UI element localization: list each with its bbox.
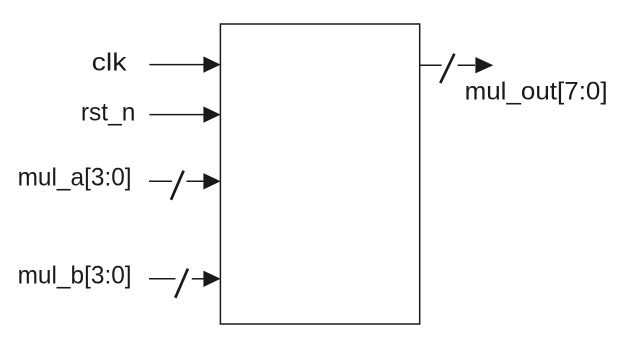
svg-text:mul_out[7:0]: mul_out[7:0] (465, 78, 608, 106)
wire clk (149, 64, 204, 66)
wire mul_a segment 1 (149, 180, 172, 182)
arrowhead clk (203, 56, 220, 72)
bus slash mul_out (440, 54, 454, 83)
svg-text:mul_a[3:0]: mul_a[3:0] (18, 163, 132, 191)
svg-text:rst_n: rst_n (81, 98, 135, 126)
wire mul_a segment 2 (187, 180, 205, 182)
multiplier block U1 (220, 24, 419, 324)
bus slash mul_b (175, 269, 188, 298)
wire mul_out stub from block (420, 64, 442, 66)
arrowhead mul_out (475, 57, 493, 73)
wire rst_n (149, 114, 204, 116)
wire mul_out segment 2 (458, 64, 475, 66)
svg-text:clk: clk (92, 48, 128, 76)
svg-text:mul_b[3:0]: mul_b[3:0] (18, 262, 132, 290)
bus slash mul_a (171, 171, 184, 200)
wire mul_b segment 1 (149, 278, 176, 280)
arrowhead mul_a (203, 173, 220, 189)
arrowhead rst_n (203, 106, 220, 122)
arrowhead mul_b (203, 271, 220, 287)
wire mul_b segment 2 (192, 278, 205, 280)
